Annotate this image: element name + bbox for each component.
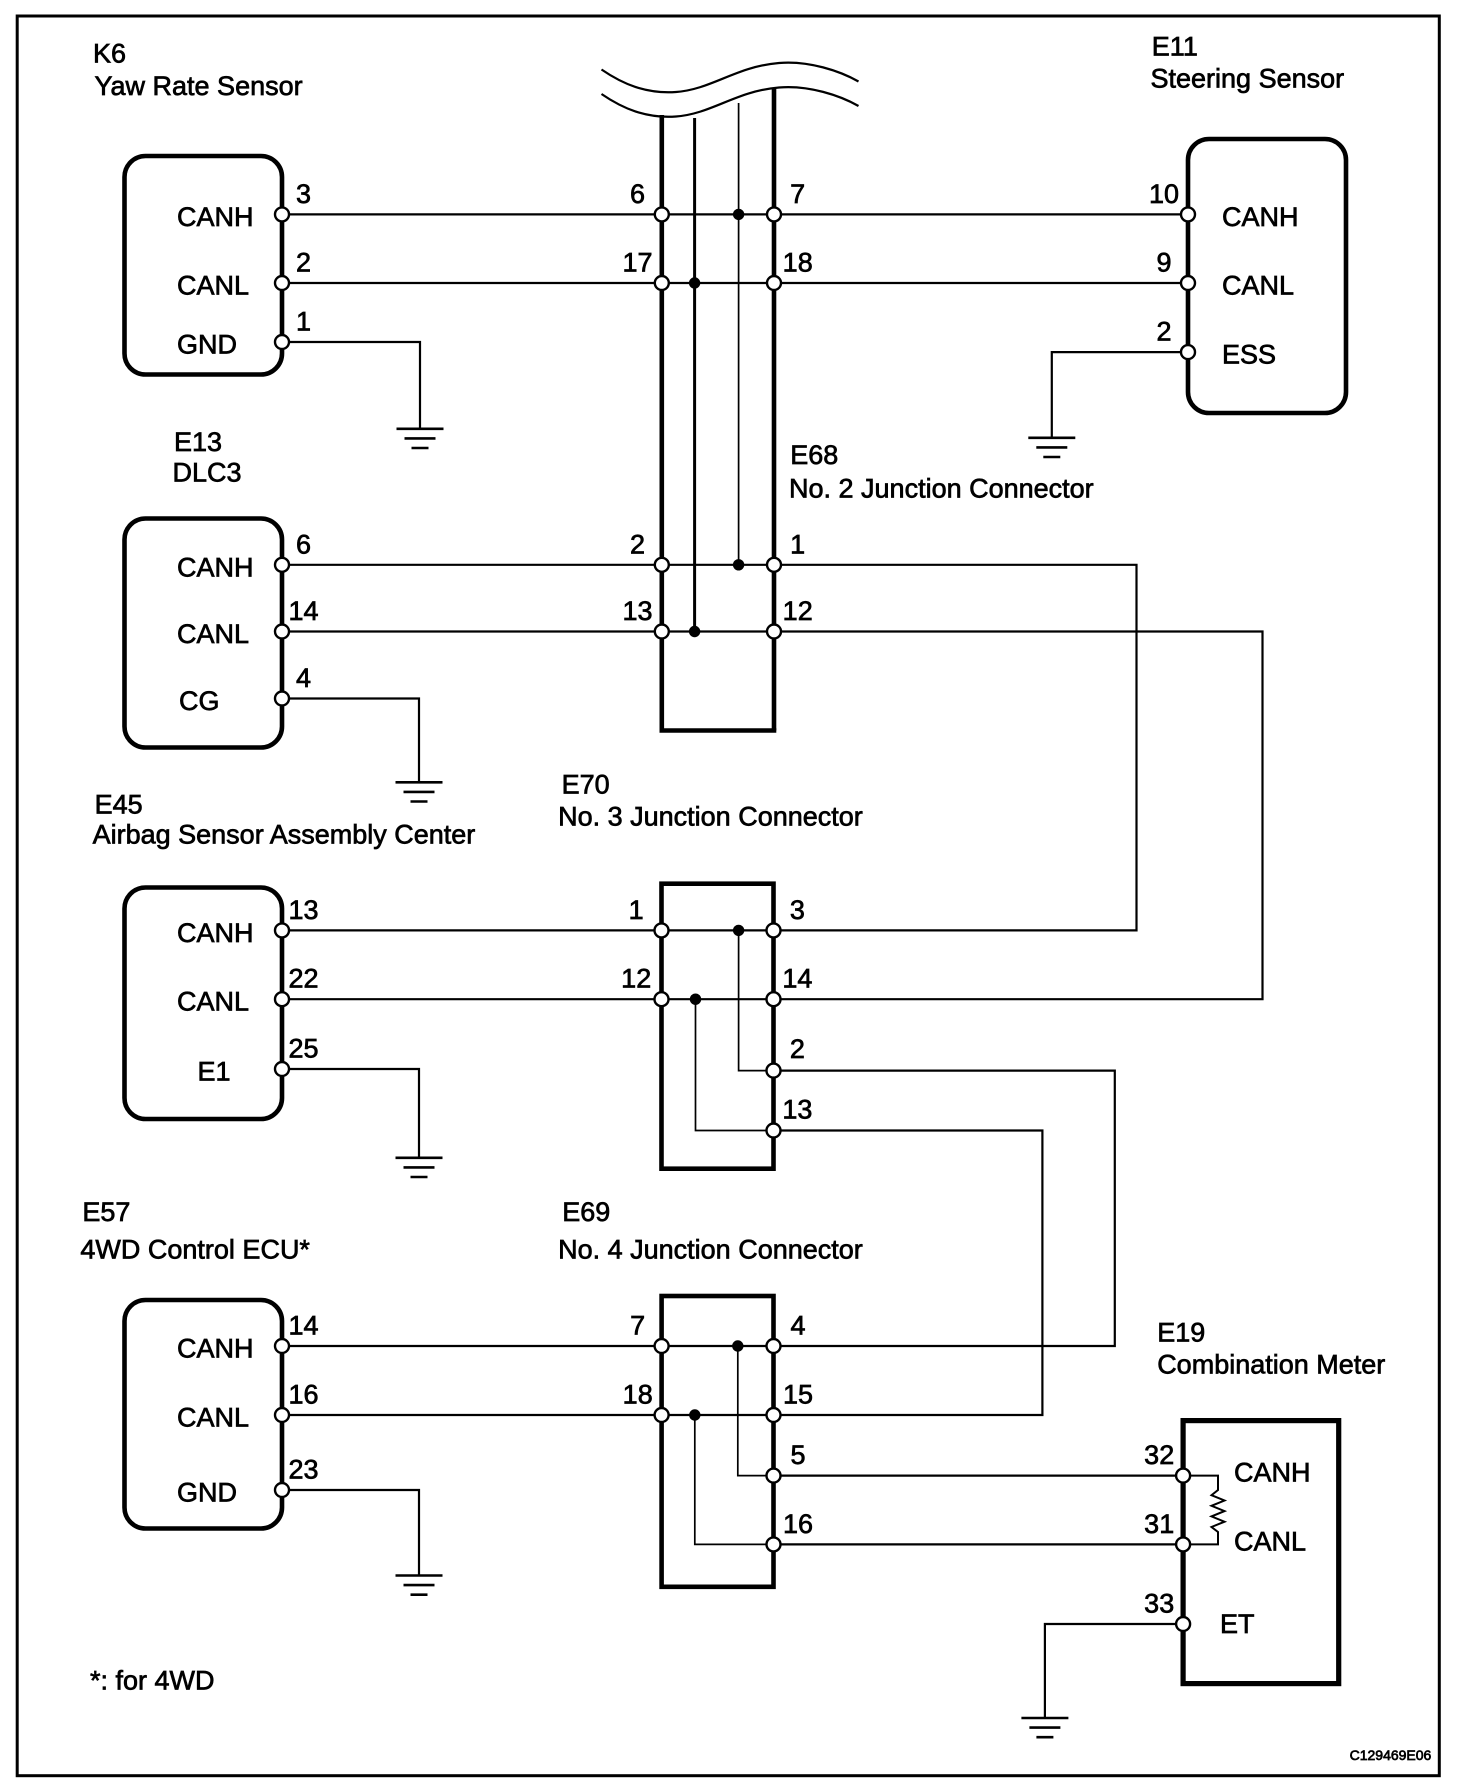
junction dot E70 row 1-3 [733,925,744,936]
connector E57 4WD Control ECU [125,1300,283,1529]
svg-text:12: 12 [783,596,813,626]
svg-text:3: 3 [296,179,311,209]
pin circle E11 2 [1181,345,1195,359]
junction dot E69 row 18-15 [689,1409,700,1420]
junction dot E68 CANL bus row 13-12 [689,626,700,637]
wire inside E70 row 12-14 [662,998,774,1000]
svg-text:10: 10 [1149,179,1179,209]
svg-text:6: 6 [630,179,645,209]
connector E11 Steering Sensor [1188,139,1346,413]
pin circle E70 2 [767,1064,781,1078]
svg-text:33: 33 [1144,1589,1174,1619]
ground K6 GND [397,429,444,448]
wire E11 ESS to ground [1052,352,1188,438]
pin circle E68 2 [655,558,669,572]
svg-text:CANH: CANH [1234,1458,1311,1488]
svg-text:CANH: CANH [177,552,254,582]
svg-text:E57: E57 [82,1197,130,1227]
svg-text:No. 4 Junction Connector: No. 4 Junction Connector [558,1234,863,1264]
svg-text:3: 3 [790,895,805,925]
svg-text:7: 7 [630,1311,645,1341]
wire E68 internal CANH bus [738,103,740,565]
connector E19 Combination Meter body [1183,1421,1339,1684]
svg-text:12: 12 [621,964,651,994]
svg-text:GND: GND [177,330,237,360]
pin circle E11 9 [1181,276,1195,290]
resistor terminating (E19 CANH-CANL) [1183,1476,1224,1545]
pin circle K6 3 [275,207,289,221]
svg-text:7: 7 [790,179,805,209]
wire E70 pin13 to E69 pin15 [774,1131,1043,1416]
svg-text:4: 4 [790,1311,805,1341]
ground E19 ET [1021,1718,1068,1737]
svg-text:14: 14 [288,1311,318,1341]
svg-text:No. 2 Junction Connector: No. 2 Junction Connector [789,474,1094,504]
svg-text:CANH: CANH [177,202,254,232]
svg-text:31: 31 [1144,1509,1174,1539]
svg-text:Airbag Sensor Assembly Center: Airbag Sensor Assembly Center [93,820,476,850]
pin circle E68 7 [767,207,781,221]
svg-text:13: 13 [288,895,318,925]
pin circle E69 4 [767,1339,781,1353]
pin circle E19 33 [1176,1617,1190,1631]
svg-text:E13: E13 [174,427,222,457]
svg-text:*: for 4WD: *: for 4WD [90,1666,215,1696]
wire CANH net K6-E11 row [282,213,1188,215]
wire E68 internal CANL bus [693,118,696,632]
pin circle E57 14 [275,1339,289,1353]
svg-text:E69: E69 [562,1197,610,1227]
junction dot E70 row 12-14 [690,994,701,1005]
junction dot E68 CANL bus row 17-18 [689,277,700,288]
wire CANL net K6-E11 row [282,282,1188,284]
svg-text:2: 2 [790,1034,805,1064]
connector E45 Airbag Sensor Assembly Center [125,888,283,1120]
wire E69 internal pin4-pin5 link [738,1346,774,1476]
connector E13 DLC3 [125,519,283,748]
svg-text:No. 3 Junction Connector: No. 3 Junction Connector [558,801,863,831]
svg-text:4WD Control ECU*: 4WD Control ECU* [80,1234,310,1264]
wire K6 GND to ground [282,342,420,429]
svg-text:CANL: CANL [1234,1526,1306,1556]
pin circle E69 15 [767,1408,781,1422]
harness break wave upper [602,63,859,93]
svg-text:13: 13 [622,596,652,626]
svg-text:E70: E70 [562,769,610,799]
junction dot E68 CANH bus row 6-7 [733,209,744,220]
svg-text:CANL: CANL [177,1403,249,1433]
pin circle E70 14 [767,992,781,1006]
wire inside E68 row 13-12 [662,630,774,632]
svg-text:C129469E06: C129469E06 [1350,1747,1432,1763]
svg-text:CANL: CANL [1222,271,1294,301]
wire E70 internal pin12-pin13 link [696,999,774,1130]
wire E68 pin12 to E70 pin14 [774,632,1263,1000]
pin circle K6 1 [275,335,289,349]
wire inside E69 row 7-4 [662,1345,774,1347]
svg-text:13: 13 [782,1095,812,1125]
wire E68 pin1 to E70 pin3 [774,565,1137,931]
wire E57 CANL to E69 pin18 [282,1414,662,1416]
svg-text:23: 23 [288,1455,318,1485]
ground E11 ESS [1028,438,1075,457]
ground E45 E1 [396,1158,443,1177]
ground E57 GND [396,1576,443,1595]
svg-text:14: 14 [782,964,812,994]
svg-text:2: 2 [296,248,311,278]
pin circle E57 23 [275,1483,289,1497]
svg-text:14: 14 [288,596,318,626]
svg-text:E68: E68 [790,440,838,470]
svg-text:16: 16 [288,1380,318,1410]
svg-text:22: 22 [288,964,318,994]
harness break wave lower [602,87,859,117]
pin circle E68 18 [767,276,781,290]
wire E69 pin5 to E19 pin32 [774,1474,1184,1476]
pin circle E70 13 [767,1124,781,1138]
svg-text:CANH: CANH [177,918,254,948]
svg-text:32: 32 [1144,1440,1174,1470]
wire E69 internal pin18-pin16 link [695,1415,774,1544]
pin circle E70 12 [655,992,669,1006]
pin circle K6 2 [275,276,289,290]
svg-text:CANH: CANH [177,1334,254,1364]
junction dot E68 CANH bus row 2-1 [733,559,744,570]
pin circle E45 22 [275,992,289,1006]
svg-text:4: 4 [296,663,311,693]
wire E45 CANL to E70 pin12 [282,998,662,1000]
svg-text:CG: CG [179,686,220,716]
svg-text:18: 18 [783,248,813,278]
pin circle E69 16 [767,1537,781,1551]
svg-text:9: 9 [1156,248,1171,278]
svg-text:1: 1 [790,529,805,559]
wire E13 CANL to E68 pin13 [282,630,662,632]
svg-text:18: 18 [623,1380,653,1410]
pin circle E57 16 [275,1408,289,1422]
svg-text:CANH: CANH [1222,202,1299,232]
svg-text:E45: E45 [95,790,143,820]
pin circle E13 14 [275,625,289,639]
pin circle E19 31 [1176,1537,1190,1551]
junction connector E68 body [660,88,777,731]
pin circle E68 12 [767,625,781,639]
svg-text:15: 15 [783,1380,813,1410]
pin circle E68 17 [655,276,669,290]
pin circle E69 7 [655,1339,669,1353]
wire inside E68 row 2-1 [662,564,774,566]
pin circle E45 13 [275,923,289,937]
pin circle E70 3 [767,923,781,937]
svg-text:25: 25 [288,1034,318,1064]
pin circle E19 32 [1176,1469,1190,1483]
svg-text:1: 1 [629,895,644,925]
svg-text:K6: K6 [93,39,126,69]
svg-text:Combination Meter: Combination Meter [1157,1350,1385,1380]
wire E45 E1 to ground [282,1069,419,1158]
svg-text:CANL: CANL [177,271,249,301]
svg-text:E19: E19 [1157,1317,1205,1347]
pin circle E13 6 [275,558,289,572]
pin circle E69 5 [767,1469,781,1483]
wire E70 internal pin3-pin2 link [739,930,774,1070]
pin circle E45 25 [275,1062,289,1076]
svg-text:CANL: CANL [177,619,249,649]
wire inside E70 row 1-3 [662,929,774,931]
pin circle E69 18 [655,1408,669,1422]
pin circle E11 10 [1181,207,1195,221]
wire E57 GND to ground [282,1490,419,1576]
svg-text:Yaw Rate Sensor: Yaw Rate Sensor [95,71,303,101]
svg-text:ESS: ESS [1222,340,1276,370]
wire E69 pin16 to E19 pin31 [774,1543,1184,1545]
connector K6 Yaw Rate Sensor [125,156,283,375]
svg-text:2: 2 [1156,317,1171,347]
junction dot E69 row 7-4 [732,1340,743,1351]
wire inside E69 row 18-15 [662,1414,774,1416]
svg-text:17: 17 [622,248,652,278]
wire E13 CG to ground [282,699,419,783]
wire E45 CANH to E70 pin1 [282,929,662,931]
svg-text:2: 2 [630,529,645,559]
svg-text:1: 1 [296,307,311,337]
svg-text:E1: E1 [198,1057,231,1087]
svg-text:6: 6 [296,529,311,559]
svg-text:5: 5 [790,1440,805,1470]
pin circle E68 6 [655,207,669,221]
pin circle E13 4 [275,692,289,706]
junction connector E70 body [662,884,774,1169]
svg-text:Steering Sensor: Steering Sensor [1151,64,1345,94]
svg-text:E11: E11 [1152,31,1198,61]
junction connector E69 body [662,1296,774,1587]
pin circle E68 1 [767,558,781,572]
wire E70 pin2 to E69 pin4 [774,1071,1115,1346]
svg-text:CANL: CANL [177,987,249,1017]
svg-text:GND: GND [177,1478,237,1508]
wire E57 CANH to E69 pin7 [282,1345,662,1347]
wire E19 ET to ground [1045,1624,1183,1718]
svg-text:ET: ET [1220,1609,1255,1639]
wire E13 CANH to E68 pin2 [282,564,662,566]
ground E13 CG [396,782,443,801]
svg-text:DLC3: DLC3 [173,457,242,487]
pin circle E70 1 [655,923,669,937]
pin circle E68 13 [655,625,669,639]
svg-text:16: 16 [783,1509,813,1539]
